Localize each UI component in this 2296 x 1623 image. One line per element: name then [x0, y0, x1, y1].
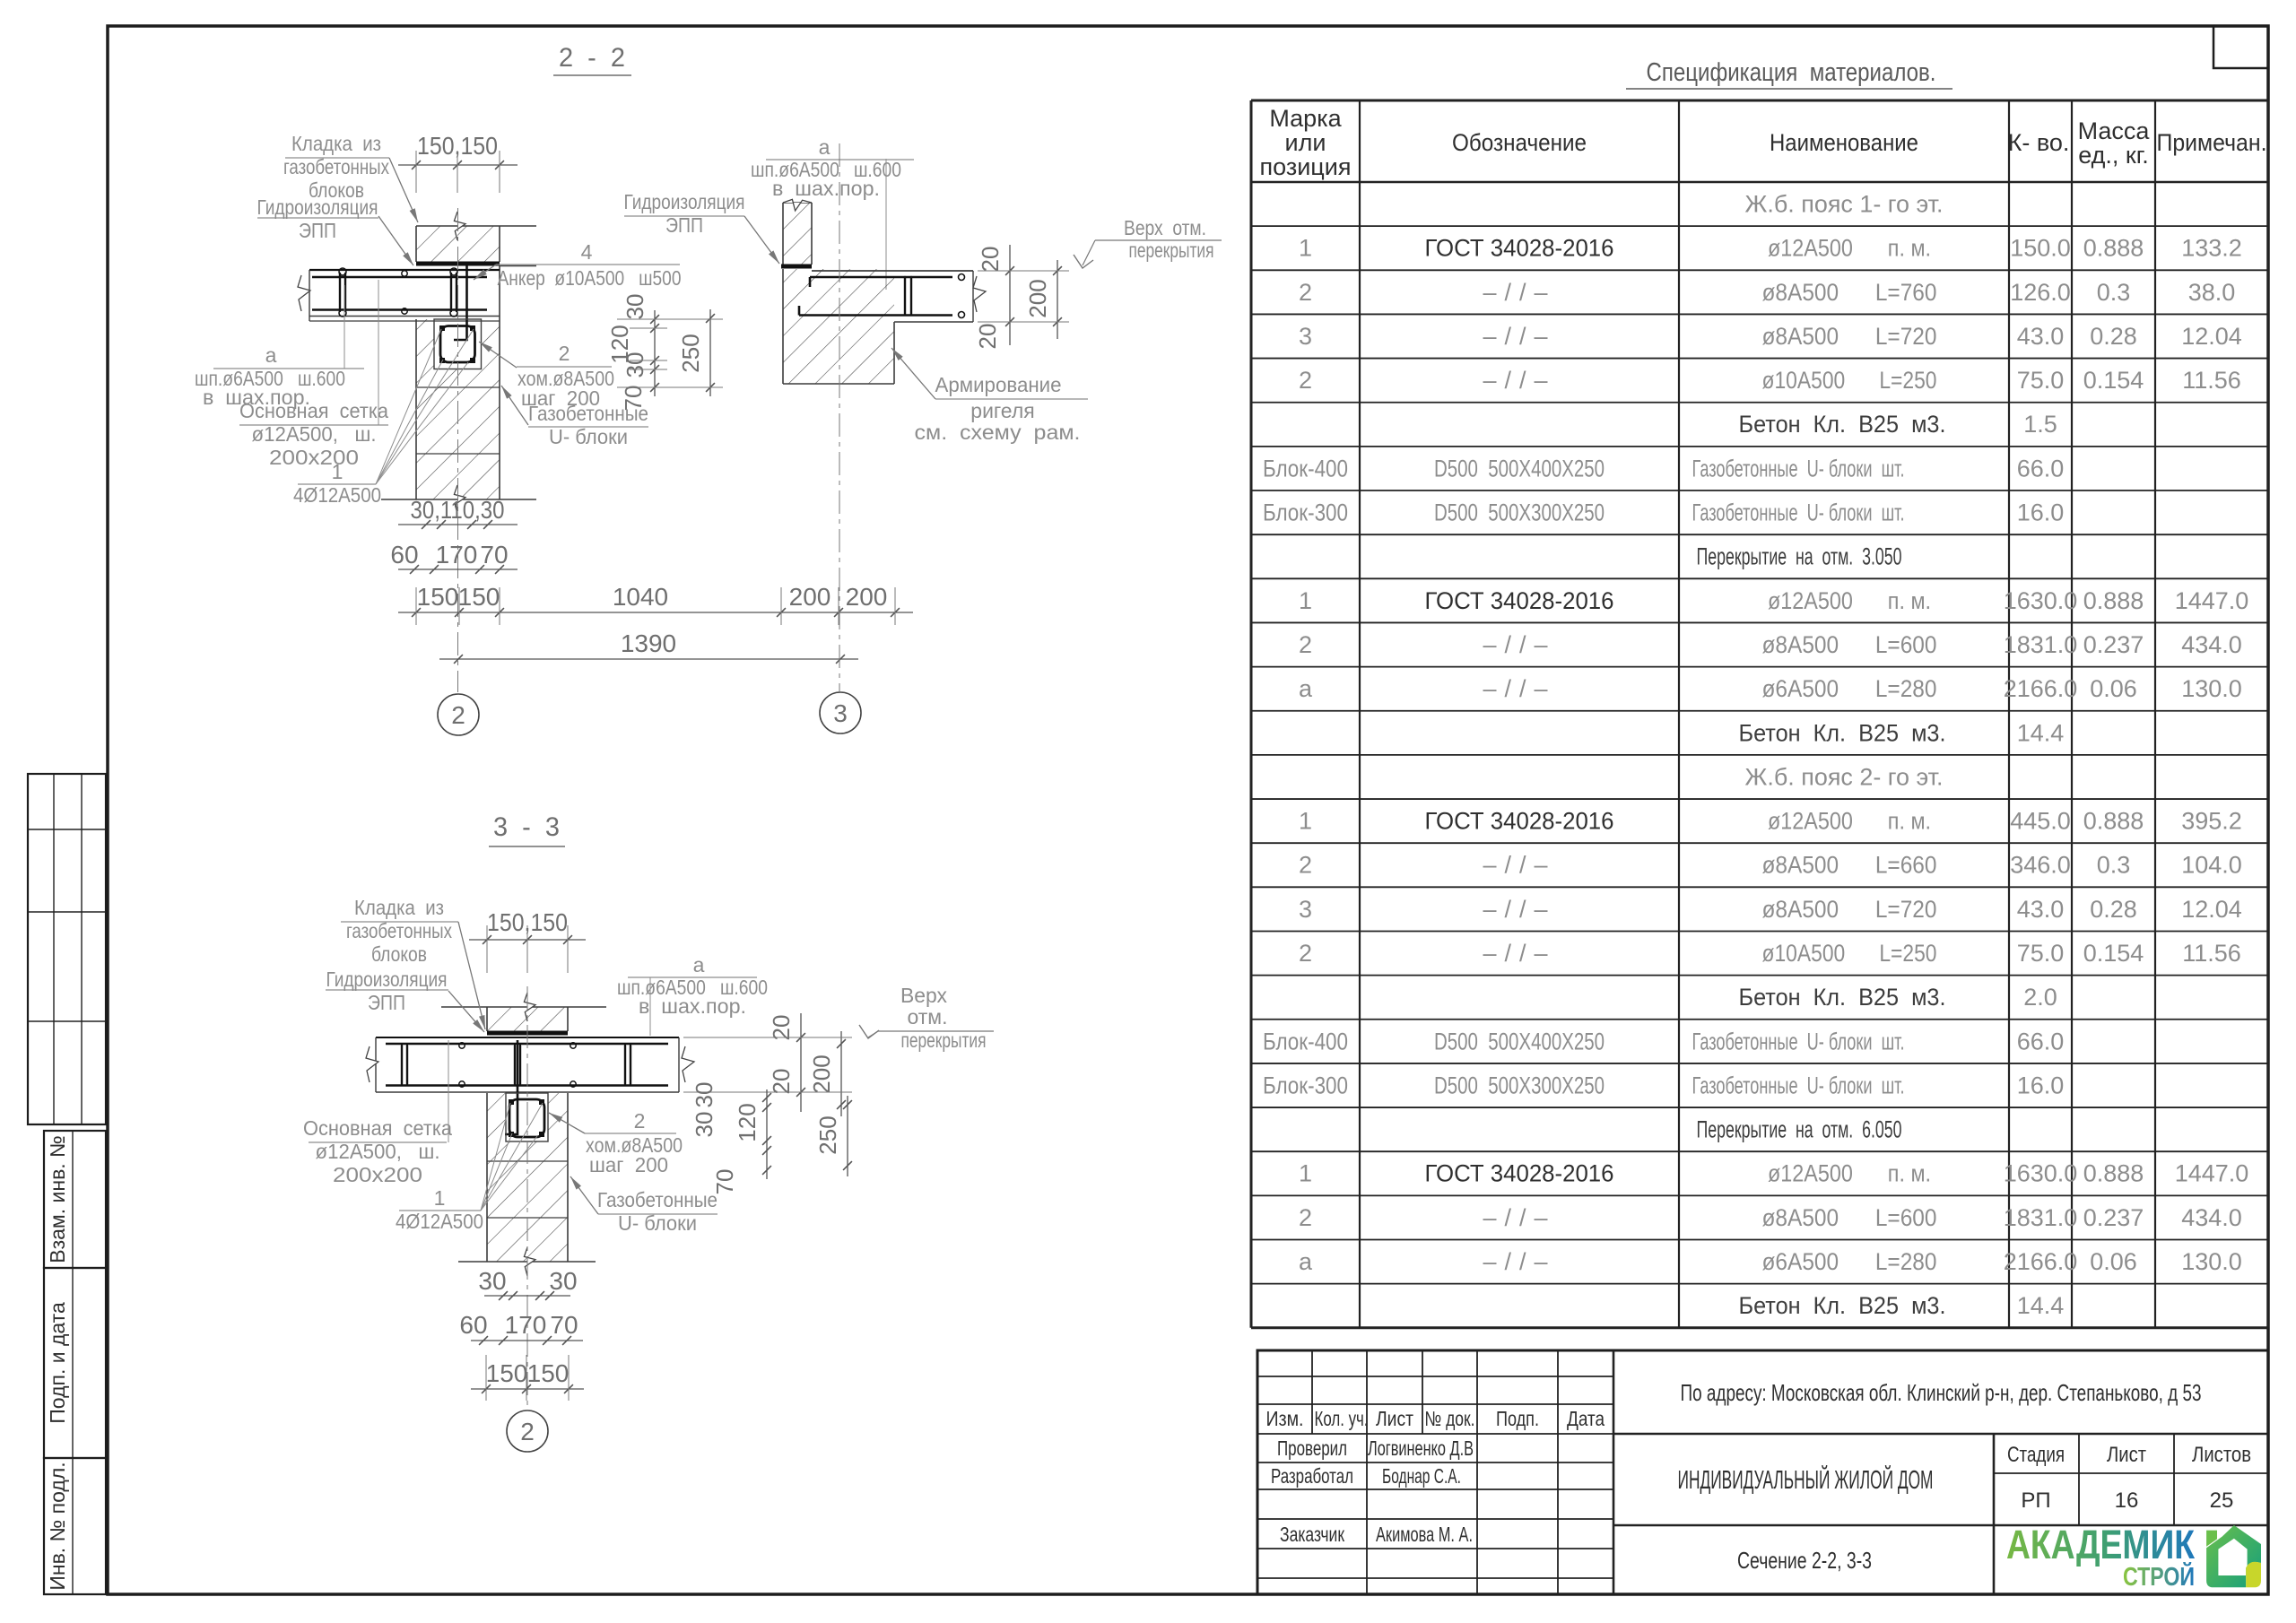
svg-text:Инв. № подл.: Инв. № подл.	[46, 1462, 69, 1590]
svg-text:ø6А500 L=280: ø6А500 L=280	[1762, 1248, 1937, 1275]
svg-text:ø6А500 L=280: ø6А500 L=280	[1762, 675, 1937, 702]
svg-text:0.3: 0.3	[2097, 852, 2131, 879]
svg-text:11.56: 11.56	[2182, 367, 2241, 394]
svg-text:1.5: 1.5	[2023, 411, 2057, 438]
svg-text:или: или	[1285, 129, 1326, 156]
svg-text:2: 2	[1299, 940, 1312, 967]
svg-text:Гидроизоляция: Гидроизоляция	[257, 195, 378, 219]
svg-text:60: 60	[459, 1311, 487, 1339]
svg-text:Проверил: Проверил	[1277, 1436, 1347, 1460]
svg-text:Газобетонные: Газобетонные	[597, 1188, 717, 1211]
svg-text:30: 30	[691, 1082, 717, 1108]
svg-text:Логвиненко Д.В: Логвиненко Д.В	[1368, 1436, 1474, 1460]
svg-text:Изм.: Изм.	[1266, 1407, 1304, 1430]
svg-text:ГОСТ 34028-2016: ГОСТ 34028-2016	[1425, 235, 1614, 262]
svg-text:200: 200	[789, 583, 831, 611]
svg-text:Основная сетка: Основная сетка	[303, 1116, 452, 1140]
svg-text:Подп.: Подп.	[1496, 1407, 1539, 1430]
svg-text:ø12А500 п. м.: ø12А500 п. м.	[1768, 808, 1931, 835]
svg-text:–//–: –//–	[1483, 896, 1555, 923]
svg-text:ø12А500, ш.: ø12А500, ш.	[316, 1140, 440, 1163]
svg-text:170: 170	[436, 541, 478, 568]
svg-text:1831.0: 1831.0	[2004, 1204, 2078, 1231]
svg-text:в шах.пор.: в шах.пор.	[639, 994, 746, 1018]
svg-text:2: 2	[1299, 631, 1312, 658]
svg-text:14.4: 14.4	[2017, 719, 2065, 746]
svg-text:3: 3	[1299, 323, 1312, 350]
svg-text:2: 2	[634, 1109, 646, 1133]
svg-text:Газобетонные U- блоки шт.: Газобетонные U- блоки шт.	[1692, 499, 1905, 526]
svg-text:30: 30	[622, 294, 648, 320]
svg-text:Обозначение: Обозначение	[1452, 129, 1587, 156]
svg-text:Дата: Дата	[1567, 1407, 1605, 1430]
svg-text:ЭПП: ЭПП	[299, 219, 336, 242]
svg-text:1390: 1390	[621, 629, 676, 657]
svg-text:ИНДИВИДУАЛЬНЫЙ ЖИЛОЙ ДОМ: ИНДИВИДУАЛЬНЫЙ ЖИЛОЙ ДОМ	[1678, 1464, 1934, 1495]
svg-text:ø10А500 L=250: ø10А500 L=250	[1762, 940, 1937, 967]
svg-text:а: а	[1299, 1248, 1313, 1275]
svg-text:30: 30	[622, 352, 648, 378]
svg-text:4Ø12А500: 4Ø12А500	[293, 483, 381, 507]
svg-text:а: а	[1299, 675, 1313, 702]
svg-text:30: 30	[549, 1267, 577, 1295]
svg-text:Бетон Кл. В25 м3.: Бетон Кл. В25 м3.	[1739, 1292, 1946, 1319]
svg-text:1: 1	[1299, 235, 1312, 262]
svg-text:Подп. и дата: Подп. и дата	[46, 1302, 69, 1424]
svg-text:Армирование: Армирование	[935, 373, 1062, 396]
svg-text:Газобетонные: Газобетонные	[528, 402, 648, 425]
svg-text:1: 1	[1299, 1160, 1312, 1187]
svg-text:Газобетонные U- блоки шт.: Газобетонные U- блоки шт.	[1692, 1028, 1905, 1055]
svg-text:126.0: 126.0	[2010, 279, 2071, 306]
svg-text:104.0: 104.0	[2181, 852, 2242, 879]
svg-text:2: 2	[451, 701, 465, 729]
svg-text:2: 2	[1299, 367, 1312, 394]
svg-text:2166.0: 2166.0	[2004, 1248, 2078, 1275]
svg-text:Ж.б. пояс 2- го эт.: Ж.б. пояс 2- го эт.	[1745, 763, 1944, 790]
svg-text:Боднар С.А.: Боднар С.А.	[1382, 1464, 1461, 1488]
svg-text:ø8А500 L=600: ø8А500 L=600	[1762, 1204, 1937, 1231]
svg-text:ø10А500 L=250: ø10А500 L=250	[1762, 367, 1937, 394]
svg-text:4: 4	[581, 240, 593, 264]
svg-text:–//–: –//–	[1483, 279, 1555, 306]
svg-text:0.237: 0.237	[2083, 1204, 2144, 1231]
svg-text:200х200: 200х200	[269, 446, 359, 469]
svg-text:ø12А500 п. м.: ø12А500 п. м.	[1768, 235, 1931, 262]
svg-text:а: а	[693, 953, 705, 976]
svg-text:20: 20	[768, 1015, 795, 1041]
svg-text:ГОСТ 34028-2016: ГОСТ 34028-2016	[1425, 587, 1614, 614]
svg-text:Примечан.: Примечан.	[2157, 129, 2267, 156]
svg-text:250: 250	[677, 334, 704, 372]
svg-text:Блок-400: Блок-400	[1263, 1028, 1348, 1055]
svg-text:150: 150	[486, 1359, 528, 1387]
svg-text:1: 1	[1299, 808, 1312, 835]
svg-text:Бетон Кл. В25 м3.: Бетон Кл. В25 м3.	[1739, 719, 1946, 746]
svg-text:ø8А500 L=720: ø8А500 L=720	[1762, 323, 1937, 350]
svg-text:перекрытия: перекрытия	[901, 1028, 987, 1052]
svg-text:395.2: 395.2	[2181, 808, 2242, 835]
svg-text:3: 3	[833, 699, 848, 727]
svg-text:16.0: 16.0	[2017, 499, 2065, 526]
svg-text:25: 25	[2210, 1488, 2234, 1513]
svg-text:Кол. уч.: Кол. уч.	[1315, 1407, 1369, 1430]
svg-text:Анкер ø10А500 ш500: Анкер ø10А500 ш500	[498, 266, 682, 290]
svg-text:150: 150	[458, 583, 500, 611]
svg-text:К- во.: К- во.	[2008, 129, 2070, 156]
svg-text:Кладка из: Кладка из	[354, 896, 444, 919]
svg-text:3 - 3: 3 - 3	[493, 812, 560, 842]
svg-text:16: 16	[2115, 1488, 2139, 1513]
svg-text:–//–: –//–	[1483, 1204, 1555, 1231]
svg-text:150: 150	[527, 1359, 570, 1387]
svg-text:200: 200	[808, 1055, 835, 1093]
svg-text:Блок-300: Блок-300	[1263, 499, 1348, 526]
svg-text:Гидроизоляция: Гидроизоляция	[624, 190, 745, 213]
svg-text:14.4: 14.4	[2017, 1292, 2065, 1319]
svg-text:ø12А500 п. м.: ø12А500 п. м.	[1768, 587, 1931, 614]
svg-text:СТРОЙ: СТРОЙ	[2123, 1561, 2195, 1592]
svg-text:30: 30	[691, 1112, 717, 1138]
svg-text:Заказчик: Заказчик	[1280, 1523, 1345, 1546]
svg-text:отм.: отм.	[907, 1005, 947, 1028]
svg-text:Кладка из: Кладка из	[291, 132, 381, 155]
svg-text:Блок-300: Блок-300	[1263, 1072, 1348, 1098]
svg-text:а: а	[819, 135, 831, 159]
svg-text:200: 200	[1024, 279, 1051, 317]
svg-text:Перекрытие на отм. 3.050: Перекрытие на отм. 3.050	[1697, 543, 1902, 570]
svg-text:АКАДЕМИК: АКАДЕМИК	[2006, 1522, 2195, 1567]
svg-text:Марка: Марка	[1269, 105, 1342, 132]
svg-text:Лист: Лист	[1376, 1407, 1413, 1430]
svg-text:–//–: –//–	[1483, 367, 1555, 394]
svg-text:346.0: 346.0	[2010, 852, 2071, 879]
svg-text:Лист: Лист	[2107, 1443, 2146, 1467]
svg-text:Гидроизоляция: Гидроизоляция	[326, 968, 448, 991]
svg-text:0.237: 0.237	[2083, 631, 2144, 658]
svg-text:3: 3	[1299, 896, 1312, 923]
svg-text:1: 1	[434, 1186, 446, 1210]
svg-text:Стадия: Стадия	[2007, 1443, 2065, 1467]
svg-text:200: 200	[846, 583, 888, 611]
svg-text:ø8А500 L=660: ø8А500 L=660	[1762, 852, 1937, 879]
svg-text:70: 70	[480, 541, 508, 568]
svg-text:D500 500Х400Х250: D500 500Х400Х250	[1434, 455, 1605, 482]
svg-text:43.0: 43.0	[2017, 323, 2065, 350]
svg-text:1630.0: 1630.0	[2004, 587, 2078, 614]
svg-text:434.0: 434.0	[2181, 1204, 2242, 1231]
svg-text:Листов: Листов	[2192, 1443, 2251, 1467]
svg-text:ГОСТ 34028-2016: ГОСТ 34028-2016	[1425, 1160, 1614, 1187]
svg-text:60: 60	[390, 541, 418, 568]
svg-text:16.0: 16.0	[2017, 1072, 2065, 1098]
svg-text:1447.0: 1447.0	[2175, 1160, 2249, 1187]
svg-text:№ док.: № док.	[1425, 1407, 1475, 1430]
svg-text:в шах.пор.: в шах.пор.	[772, 177, 880, 200]
svg-text:0.06: 0.06	[2090, 1248, 2137, 1275]
svg-text:U- блоки: U- блоки	[549, 425, 628, 448]
svg-text:–//–: –//–	[1483, 631, 1555, 658]
svg-text:Верх отм.: Верх отм.	[1124, 216, 1206, 239]
svg-text:ø8А500 L=600: ø8А500 L=600	[1762, 631, 1937, 658]
svg-text:200х200: 200х200	[333, 1163, 422, 1186]
svg-text:РП: РП	[2021, 1488, 2050, 1513]
svg-text:–//–: –//–	[1483, 675, 1555, 702]
svg-text:1630.0: 1630.0	[2004, 1160, 2078, 1187]
svg-text:ГОСТ 34028-2016: ГОСТ 34028-2016	[1425, 808, 1614, 835]
svg-text:43.0: 43.0	[2017, 896, 2065, 923]
svg-text:1: 1	[332, 460, 344, 483]
svg-text:Газобетонные U- блоки шт.: Газобетонные U- блоки шт.	[1692, 455, 1905, 482]
svg-text:170: 170	[505, 1311, 547, 1339]
svg-text:4Ø12А500: 4Ø12А500	[396, 1210, 483, 1233]
svg-text:2: 2	[520, 1418, 535, 1445]
svg-text:Блок-400: Блок-400	[1263, 455, 1348, 482]
svg-text:0.06: 0.06	[2090, 675, 2137, 702]
svg-text:Бетон Кл. В25 м3.: Бетон Кл. В25 м3.	[1739, 984, 1946, 1011]
svg-text:позиция: позиция	[1260, 153, 1352, 180]
svg-text:Наименование: Наименование	[1770, 129, 1918, 156]
svg-text:2: 2	[1299, 279, 1312, 306]
svg-text:20: 20	[768, 1069, 795, 1095]
svg-text:150: 150	[417, 583, 459, 611]
svg-text:2 - 2: 2 - 2	[559, 43, 625, 73]
svg-text:75.0: 75.0	[2017, 940, 2065, 967]
svg-text:газобетонных: газобетонных	[346, 919, 452, 942]
svg-text:–//–: –//–	[1483, 940, 1555, 967]
svg-text:1447.0: 1447.0	[2175, 587, 2249, 614]
svg-text:а: а	[265, 343, 277, 367]
svg-text:130.0: 130.0	[2181, 675, 2242, 702]
svg-text:20: 20	[974, 324, 1001, 350]
svg-text:D500 500Х300Х250: D500 500Х300Х250	[1434, 499, 1605, 526]
svg-text:0.888: 0.888	[2083, 1160, 2144, 1187]
svg-text:–//–: –//–	[1483, 852, 1555, 879]
svg-text:Газобетонные U- блоки шт.: Газобетонные U- блоки шт.	[1692, 1072, 1905, 1098]
svg-text:445.0: 445.0	[2010, 808, 2071, 835]
svg-text:0.888: 0.888	[2083, 235, 2144, 262]
svg-text:ø12А500, ш.: ø12А500, ш.	[252, 422, 377, 446]
svg-text:12.04: 12.04	[2181, 896, 2242, 923]
svg-text:75.0: 75.0	[2017, 367, 2065, 394]
svg-text:шаг 200: шаг 200	[589, 1153, 668, 1176]
svg-text:Спецификация материалов.: Спецификация материалов.	[1647, 58, 1936, 87]
svg-text:ø12А500 п. м.: ø12А500 п. м.	[1768, 1160, 1931, 1187]
svg-text:2: 2	[559, 342, 570, 365]
svg-text:Верх: Верх	[900, 984, 947, 1007]
svg-text:ø8А500 L=760: ø8А500 L=760	[1762, 279, 1937, 306]
svg-text:66.0: 66.0	[2017, 1028, 2065, 1055]
svg-text:ЭПП: ЭПП	[665, 213, 703, 237]
svg-text:По адресу: Московская обл. Кли: По адресу: Московская обл. Клинский р-н,…	[1681, 1379, 2202, 1406]
svg-text:130.0: 130.0	[2181, 1248, 2242, 1275]
svg-text:U- блоки: U- блоки	[618, 1211, 697, 1235]
svg-text:–//–: –//–	[1483, 323, 1555, 350]
svg-text:–//–: –//–	[1483, 1248, 1555, 1275]
svg-text:434.0: 434.0	[2181, 631, 2242, 658]
svg-text:см. схему рам.: см. схему рам.	[915, 421, 1081, 444]
svg-text:перекрытия: перекрытия	[1129, 239, 1214, 262]
svg-text:133.2: 133.2	[2181, 235, 2242, 262]
svg-text:0.154: 0.154	[2083, 940, 2144, 967]
svg-text:0.28: 0.28	[2090, 323, 2137, 350]
svg-text:Бетон Кл. В25 м3.: Бетон Кл. В25 м3.	[1739, 411, 1946, 438]
svg-text:0.154: 0.154	[2083, 367, 2144, 394]
svg-text:ø8А500 L=720: ø8А500 L=720	[1762, 896, 1937, 923]
svg-text:Перекрытие на отм. 6.050: Перекрытие на отм. 6.050	[1697, 1116, 1902, 1143]
svg-text:2166.0: 2166.0	[2004, 675, 2078, 702]
svg-text:Основная сетка: Основная сетка	[239, 399, 388, 422]
svg-text:70: 70	[550, 1311, 578, 1339]
svg-text:66.0: 66.0	[2017, 455, 2065, 482]
svg-text:20: 20	[977, 247, 1004, 273]
svg-text:газобетонных: газобетонных	[283, 155, 389, 178]
svg-text:ед., кг.: ед., кг.	[2078, 142, 2149, 169]
svg-text:11.56: 11.56	[2182, 940, 2241, 967]
svg-text:150.0: 150.0	[2010, 235, 2071, 262]
svg-text:Взам. инв. №: Взам. инв. №	[46, 1135, 69, 1263]
svg-text:1: 1	[1299, 587, 1312, 614]
svg-text:D500 500Х300Х250: D500 500Х300Х250	[1434, 1072, 1605, 1098]
svg-text:ЭПП: ЭПП	[368, 991, 405, 1014]
svg-text:ригеля: ригеля	[970, 399, 1034, 422]
svg-text:12.04: 12.04	[2181, 323, 2242, 350]
svg-text:блоков: блоков	[371, 942, 427, 966]
svg-text:Масса: Масса	[2078, 117, 2151, 144]
svg-text:0.3: 0.3	[2097, 279, 2131, 306]
svg-text:Разработал: Разработал	[1271, 1464, 1353, 1488]
svg-text:2: 2	[1299, 1204, 1312, 1231]
svg-text:1040: 1040	[613, 583, 668, 611]
svg-text:250: 250	[814, 1115, 841, 1154]
svg-text:0.28: 0.28	[2090, 896, 2137, 923]
svg-text:0.888: 0.888	[2083, 587, 2144, 614]
svg-text:0.888: 0.888	[2083, 808, 2144, 835]
svg-text:2: 2	[1299, 852, 1312, 879]
svg-text:120: 120	[734, 1103, 761, 1141]
svg-text:38.0: 38.0	[2188, 279, 2236, 306]
svg-text:Акимова М. А.: Акимова М. А.	[1376, 1523, 1473, 1546]
svg-text:Сечение 2-2, 3-3: Сечение 2-2, 3-3	[1737, 1547, 1872, 1574]
svg-text:30,110,30: 30,110,30	[411, 496, 505, 524]
svg-text:1831.0: 1831.0	[2004, 631, 2078, 658]
svg-text:Ж.б. пояс 1- го эт.: Ж.б. пояс 1- го эт.	[1745, 191, 1944, 218]
svg-text:D500 500Х400Х250: D500 500Х400Х250	[1434, 1028, 1605, 1055]
svg-text:30: 30	[478, 1267, 506, 1295]
svg-text:2.0: 2.0	[2023, 984, 2057, 1011]
